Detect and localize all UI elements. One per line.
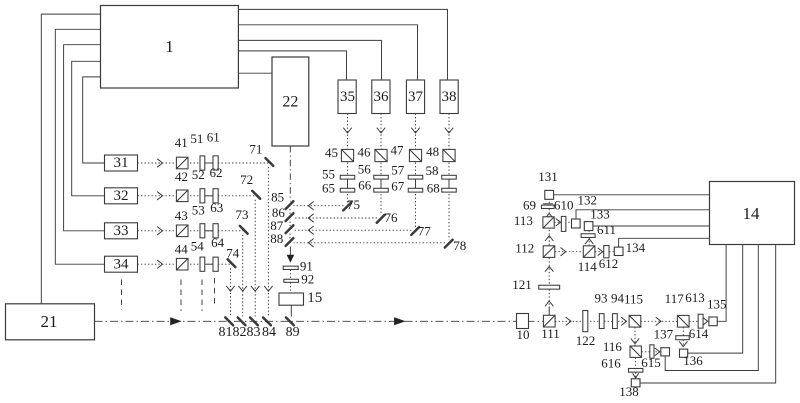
lens 67 [408,188,423,192]
wire box1 to box22 [238,72,272,74]
wire 133 to 14 [593,225,710,227]
lens 55 [340,175,355,179]
wire box1 to box38 [238,9,447,80]
mirror 86 [286,213,294,221]
svg-text:84: 84 [262,325,276,340]
svg-text:63: 63 [210,200,223,215]
beam 116 to 137 (dotted) [641,351,660,353]
beam 85 to 86 (dotted) [289,209,291,214]
svg-text:45: 45 [325,145,338,160]
svg-text:58: 58 [426,163,439,178]
beam row 34 (dotted) [138,263,232,265]
arrow after 113 [556,219,561,227]
wire 131 to 14 [554,194,710,196]
svg-text:61: 61 [207,129,220,144]
source box 37 [406,80,424,114]
beamsplitter 47 [409,149,421,161]
mirror 84 [263,318,271,326]
beam 115 to 117 (dotted) [641,320,678,322]
beam 111 to 115 (dotted) [555,320,629,322]
wire box 15 to mirror 89 [290,305,292,316]
svg-text:93: 93 [595,290,608,305]
up arrow above 121 [545,266,553,271]
up arrow below 121 [545,301,553,306]
solid connector lenses row 34 [205,263,213,265]
svg-text:616: 616 [601,356,621,371]
svg-text:134: 134 [626,240,646,255]
left arrow row 88 [308,239,313,247]
svg-text:68: 68 [427,180,440,195]
beamsplitter 41 [176,157,188,169]
beam segment 10 to 111 (dash-dot) [529,320,544,322]
beamsplitter 111 [543,315,555,327]
ellipsis dashed line below beamsplitter column [180,280,182,312]
dash-dot beam from box 22 down to mirror 85 [289,146,291,202]
beam column 37 (dotted) [415,114,417,228]
source box 33 [105,223,138,239]
svg-text:116: 116 [603,339,623,354]
svg-text:82: 82 [233,325,247,340]
svg-text:36: 36 [374,89,390,105]
down arrow 115 to 116 [631,338,639,343]
wire 132 to 14 [576,210,710,219]
mirror 78 [445,240,453,248]
arrow on beam row 31 [157,159,162,167]
beamsplitter 117 [677,315,689,327]
down arrow above 136 [679,341,687,346]
beamsplitter 44 [176,258,188,270]
beam 115 down to 116 (dotted) [634,327,636,346]
beamsplitter 116 [630,346,641,357]
svg-text:15: 15 [307,290,322,306]
svg-text:10: 10 [517,327,530,342]
svg-text:66: 66 [358,178,372,193]
beamsplitter 112 [543,246,555,258]
source box 34 [105,256,138,272]
solid connector lenses row 32 [205,195,213,197]
detector box 138 [631,379,640,387]
lens 615 [650,345,654,358]
svg-text:77: 77 [418,223,432,238]
beamsplitter 46 [375,149,387,161]
lens 56 [374,175,389,179]
lens 121 [539,285,560,289]
left arrow row 85 [308,202,313,210]
svg-text:615: 615 [641,355,661,370]
beam 116 down to 616 (dotted) [635,358,637,369]
svg-text:111: 111 [541,326,560,341]
up arrow between 114 and 611 [585,239,593,244]
box 22 [272,57,309,146]
svg-text:64: 64 [211,235,225,250]
mirror 82 [238,318,246,326]
svg-text:37: 37 [408,89,424,105]
lens 65 [340,188,355,192]
solid stub above 111 [548,307,550,316]
beam column 36 (dotted) [380,114,382,216]
mirror 74 [228,259,236,267]
arrow before 137 [655,348,660,356]
svg-text:133: 133 [590,207,610,222]
svg-text:69: 69 [523,197,536,212]
down arrow above 138 [633,373,639,378]
svg-text:121: 121 [512,277,532,292]
svg-text:83: 83 [247,325,261,340]
svg-text:32: 32 [114,188,129,204]
ellipsis dashed line below lens column 5x [201,280,203,312]
detector box 135 [709,317,717,326]
svg-text:89: 89 [286,325,300,340]
beam row 32 (dotted) [138,195,256,197]
svg-text:117: 117 [665,291,685,306]
detector box 132 [572,219,581,228]
lens 54 [200,257,205,271]
beamsplitter 42 [176,190,188,202]
svg-text:14: 14 [743,204,761,223]
beam row from mirror 77 to mirror 87 (dotted) [294,229,412,231]
svg-text:88: 88 [270,231,283,246]
mirror 72 [252,191,260,199]
solid connector lenses row 31 [205,162,213,164]
arrow between 112 and 114 [561,248,566,256]
svg-text:131: 131 [538,169,558,184]
lens 122 [583,311,588,332]
svg-text:138: 138 [619,384,639,399]
lens 51 [200,156,205,170]
filled arrow on main beam mid [394,317,406,325]
beamsplitter 115 [629,315,641,327]
wire box1 to box36 [238,40,381,80]
mirror 89 [286,318,294,326]
left arrow row 86 [308,214,313,222]
svg-text:56: 56 [358,161,372,176]
svg-text:137: 137 [654,326,674,341]
wire box1 to box31 [83,77,105,163]
svg-text:55: 55 [322,166,335,181]
wire 136 to 14 [688,245,743,354]
mirror 83 [250,318,258,326]
svg-text:41: 41 [175,135,188,150]
lens 58 [442,175,457,179]
box 14 [710,182,795,245]
svg-text:610: 610 [554,197,574,212]
lens 66 [374,188,389,192]
svg-text:135: 135 [707,297,727,312]
beamsplitter 45 [341,149,353,161]
svg-text:43: 43 [175,208,188,223]
wire box1 to box32 [72,61,105,196]
arrow after 111 [566,317,571,325]
svg-text:71: 71 [249,141,262,156]
svg-text:38: 38 [442,89,457,105]
ellipsis dashed line below boxes column [121,280,123,311]
wire box1 to box34 [55,29,104,264]
source box 38 [440,80,458,114]
beam row from mirror 75 to mirror 85 (dotted) [294,205,344,207]
wire 137 to 14 [665,245,758,371]
beam 117 to 613 (dotted) [689,320,698,322]
beamsplitter 113 [543,217,554,228]
left arrow row 87 [308,226,313,234]
mirror 76 [377,215,385,223]
solid connector lenses column 35 [347,177,349,190]
beam 86 to 87 (dotted) [289,222,291,227]
arrow between 115 and 117 [656,317,661,325]
svg-text:85: 85 [271,189,284,204]
mirror 88 [286,238,294,246]
vertical beam from mirror 72 (dotted) [254,200,256,317]
down arrow on vertical beam 73 [239,286,247,291]
beam row from mirror 78 to mirror 88 (dotted) [294,242,446,244]
beam 614 to 136 (dotted) [682,340,684,347]
down arrow on column 38 [445,128,453,133]
filled arrow on main beam near 21 [170,317,182,325]
source box 32 [105,188,138,204]
vertical beam from mirror 73 (dotted) [242,235,244,317]
svg-text:35: 35 [340,89,355,105]
vertical beam chain 111 to 131 (dotted) [548,199,550,315]
svg-text:611: 611 [597,222,616,237]
svg-text:73: 73 [236,207,249,222]
detector box 137 [661,348,670,356]
svg-text:53: 53 [192,203,205,218]
detector box 133 [584,222,593,231]
svg-text:81: 81 [219,325,233,340]
beam 114 up to 133 (dotted) [588,231,590,246]
lens 613 [698,314,703,328]
beam 92 to box 15 (dotted) [290,283,292,293]
mirror 75 [343,203,351,211]
wire 134 to 14 [619,238,710,247]
lens 63 [213,224,218,238]
svg-text:92: 92 [301,272,314,287]
beam 113 to 132 (dotted) [554,221,571,223]
detector box 131 [545,190,554,199]
svg-text:47: 47 [391,143,405,158]
filled down arrow above lens 91 [287,255,295,263]
up arrow below 113 [545,236,553,241]
lens 53 [200,224,205,238]
up arrow above 113 [545,213,553,218]
svg-text:72: 72 [240,172,253,187]
svg-text:65: 65 [322,180,335,195]
wire box1 to box33 [64,45,105,231]
svg-text:94: 94 [611,290,625,305]
vertical beam from mirror 71 (dotted) [267,167,269,317]
mirror 77 [411,227,419,235]
svg-text:33: 33 [114,223,129,239]
detector box 134 [614,247,623,255]
svg-text:76: 76 [385,210,399,225]
box 10 [517,314,529,329]
solid connector lenses column 38 [448,177,450,190]
beam below mirror 88 (solid) [289,247,291,256]
mirror 85 [286,201,294,209]
svg-text:62: 62 [210,165,223,180]
lens 92 [284,279,299,282]
svg-text:614: 614 [689,326,709,341]
wire box1 to box35 [238,51,346,80]
lens 57 [408,175,423,179]
svg-text:114: 114 [578,259,598,274]
svg-text:46: 46 [358,145,372,160]
box 15 [279,293,304,305]
mirror 71 [266,158,274,166]
lens 611 [581,234,595,238]
lens right of 113 [561,216,566,231]
lens 612 [604,246,609,258]
wire 138 to 14 [640,245,776,384]
wire box1 to box37 [238,25,417,80]
mirror 81 [225,318,233,326]
lens 94 [613,314,618,329]
arrow on beam row 34 [157,260,162,268]
svg-text:21: 21 [41,312,58,331]
beam column 38 (dotted) [448,114,450,240]
down arrow on column 37 [411,128,419,133]
svg-text:112: 112 [515,241,534,256]
svg-text:48: 48 [426,144,439,159]
wire box1 to box21 [41,14,100,304]
lens 91 [283,266,298,269]
svg-text:31: 31 [114,155,129,171]
beam 117 down to 614 (dotted) [682,327,684,335]
svg-text:57: 57 [391,162,405,177]
down arrow on vertical beam 72 [251,286,259,291]
beam row 33 (dotted) [138,230,244,232]
svg-text:115: 115 [624,291,643,306]
svg-text:44: 44 [175,241,189,256]
beam row 31 (dotted) [138,162,269,164]
source box 36 [372,80,390,114]
arrow on beam row 33 [157,227,162,235]
line above lens 610 [543,203,553,205]
svg-text:52: 52 [192,167,205,182]
down arrow on vertical beam 71 [264,286,272,291]
main beam axis from 21 to 10 (dash-dot) [95,320,517,322]
svg-text:74: 74 [226,245,240,260]
svg-text:612: 612 [599,256,619,271]
solid connector lenses column 37 [415,177,417,190]
box 1 [101,6,239,89]
solid connector lenses row 33 [205,230,213,232]
beam 112 to 114 (dotted) [555,251,583,253]
beamsplitter 43 [176,225,188,237]
mirror 73 [240,226,248,234]
down arrow on column 36 [377,128,385,133]
arrow between 114 and 612 [598,248,603,256]
svg-text:78: 78 [453,238,466,253]
beam 616 to 138 (dotted) [635,372,637,378]
svg-text:42: 42 [175,169,188,184]
lens 93 [599,314,604,329]
arrow before 135 [703,318,708,326]
beam column 35 (dotted) [347,114,349,203]
wire 135 to 14 [717,245,726,322]
lens 610 [542,205,555,208]
svg-text:34: 34 [114,256,130,272]
box 21 [6,304,95,340]
ellipsis dashed line below lens column 6x [214,278,216,308]
solid connector lenses column 36 [380,177,382,190]
lens 52 [200,189,205,203]
source box 35 [338,80,356,114]
svg-text:51: 51 [190,131,203,146]
svg-text:613: 613 [685,290,705,305]
svg-text:136: 136 [683,353,703,368]
beam row from mirror 76 to mirror 86 (dotted) [294,217,378,219]
beamsplitter 114 [583,246,595,258]
beamsplitter 48 [443,149,455,161]
detector box 136 [680,349,688,357]
down arrow on vertical beam 74 [226,286,234,291]
down arrow on column 35 [343,128,351,133]
svg-text:67: 67 [391,179,405,194]
svg-text:22: 22 [282,94,298,111]
svg-text:54: 54 [191,238,205,253]
svg-text:75: 75 [347,197,360,212]
mirror 87 [286,225,294,233]
lens 614 [676,336,689,340]
lens 68 [442,188,457,192]
lens 61 [213,156,218,170]
lens 616 [629,368,643,372]
lens 64 [213,257,218,271]
arrow before 115 [621,317,626,325]
lens 62 [213,189,218,203]
source box 31 [105,155,138,171]
beam 91 to 92 (dotted) [290,270,292,280]
beam 114 to 134 (dotted) [595,251,614,253]
arrow on beam row 32 [157,192,162,200]
svg-text:1: 1 [165,37,174,56]
beam 87 to 88 (dotted) [289,234,291,239]
svg-text:113: 113 [514,213,533,228]
svg-text:122: 122 [576,333,596,348]
vertical beam from mirror 74 (dotted) [230,268,232,316]
